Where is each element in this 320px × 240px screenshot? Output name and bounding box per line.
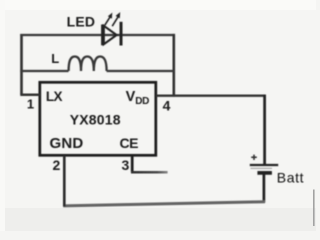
wire pin 1 (left vertical to LX) xyxy=(20,93,40,96)
LED light arrow 2 xyxy=(112,17,118,26)
svg-text:3: 3 xyxy=(122,157,130,173)
wire pin 4 VDD to battery top xyxy=(156,94,266,96)
wire pin 3 CE stub horizontal xyxy=(131,171,168,174)
LED cathode bar xyxy=(120,22,123,46)
svg-text:CE: CE xyxy=(120,135,139,151)
svg-text:4: 4 xyxy=(163,97,171,113)
LED triangle xyxy=(104,26,117,44)
LED anode bar xyxy=(101,25,104,46)
wire inductor row right segment xyxy=(107,70,175,72)
LED light arrow 1 xyxy=(105,17,111,26)
svg-text:1: 1 xyxy=(27,97,34,112)
svg-text:Batt: Batt xyxy=(277,169,304,185)
wire top-left vertical (LED/L loop left side) xyxy=(20,34,23,95)
svg-text:GND: GND xyxy=(50,135,84,152)
wire inductor row left segment xyxy=(20,70,68,72)
right edge scan artifact xyxy=(313,190,315,227)
battery B1 plus plate xyxy=(250,164,278,166)
svg-text:V: V xyxy=(126,89,136,105)
svg-text:DD: DD xyxy=(135,96,149,107)
svg-text:LX: LX xyxy=(46,89,63,104)
wire top horizontal (LED row) xyxy=(20,34,175,36)
inductor L coil xyxy=(69,57,107,72)
IC U1 YX8018 box xyxy=(40,82,156,155)
battery plate ghost line xyxy=(251,167,273,169)
battery plus sign xyxy=(251,155,257,160)
wire bottom return (GND to battery) xyxy=(63,202,265,206)
wire pin 3 CE vertical xyxy=(131,155,134,172)
wire battery bottom vertical xyxy=(263,173,266,203)
svg-text:2: 2 xyxy=(53,157,61,173)
svg-text:YX8018: YX8018 xyxy=(70,111,121,127)
wire pin 2 GND vertical xyxy=(63,155,66,206)
svg-text:LED: LED xyxy=(67,14,96,30)
battery B1 minus plate xyxy=(257,171,272,175)
wire battery top vertical xyxy=(263,95,266,165)
wire top-right vertical (loop right side down to VDD net) xyxy=(173,34,176,97)
svg-text:L: L xyxy=(51,51,59,66)
